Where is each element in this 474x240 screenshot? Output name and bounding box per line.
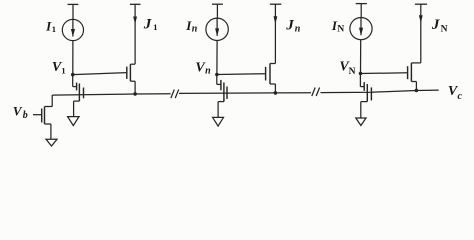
svg-text:N: N [441,25,448,35]
svg-text:J: J [431,17,440,33]
svg-text:1: 1 [153,22,157,32]
svg-text:c: c [458,91,463,102]
svg-text:b: b [23,110,28,121]
svg-text:J: J [285,18,294,34]
svg-text:1: 1 [52,24,56,34]
svg-text:n: n [295,24,301,35]
svg-text:n: n [205,66,211,77]
svg-text:1: 1 [61,66,65,76]
svg-text:N: N [349,67,356,77]
svg-text:J: J [143,17,152,33]
svg-text:V: V [13,103,23,118]
svg-text:n: n [192,24,198,35]
svg-text:N: N [337,24,344,34]
